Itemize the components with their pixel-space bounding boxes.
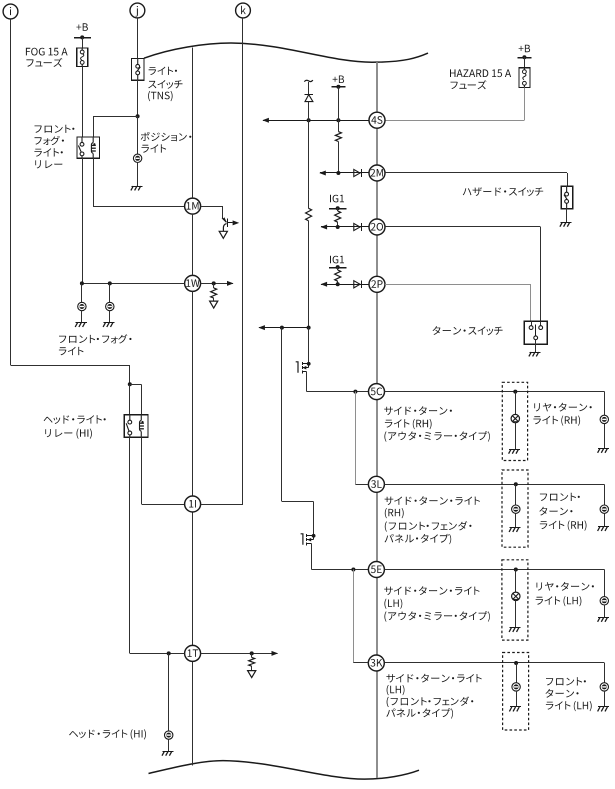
node 5E [368,562,384,578]
wire 5C dashed lamp stem [515,392,517,415]
connector joint 1M [222,217,239,231]
lamp front turn RH [600,505,608,513]
wire junction to position lamp [137,116,139,154]
node junction fog lamp 2 [108,281,112,285]
node junction 3L dashed [514,482,518,486]
node junction Q1 drain [307,362,311,366]
label IG1 second [330,256,344,264]
wire fog relay coil to 1M [93,158,184,206]
label rear turn LH [536,582,594,606]
node 4S [369,112,385,128]
switch light switch TNS [132,59,145,81]
fuse HAZARD 15 A [519,68,530,88]
wire 3K dashed gnd stem [516,691,518,707]
wire +B to hazard fuse [524,57,526,68]
label side turn LH outer mirror [384,586,490,622]
wire fog relay switch down [82,158,84,283]
wire fog lamp1 gnd stem [81,311,83,323]
wire +B mid to 4S row [338,87,340,120]
wire trunk column [192,48,194,766]
label position light [141,132,192,153]
ground front turn LH [598,707,610,712]
power IG1 bar first [329,206,347,210]
label rear turn RH [533,403,591,426]
label turn switch [433,326,503,335]
wire bottom break wave [149,761,420,780]
lamp side turn LH fender [512,683,520,691]
box dashed front turn RH [502,470,528,547]
lamp rear turn LH mirror type [512,592,520,600]
ground front turn RH [598,527,610,532]
wire 5E dashed gnd stem [515,601,517,628]
lamp front turn LH [600,683,608,691]
ground rear turn RH [598,448,610,452]
fuse FOG 15 A [77,48,88,66]
switch hazard [561,186,573,208]
resistor R3 [335,208,341,227]
node junction R2 2M [336,171,340,175]
wire diode column mid [308,120,310,208]
lamp rear turn RH mirror type [511,414,519,422]
connector i [3,4,18,19]
ground side turn LH fender [509,707,521,712]
wire hazard feed column [282,328,314,536]
label side turn LH fender [386,674,481,719]
node junction diode column feed [307,326,311,330]
node junction R4 2P [336,282,340,286]
wire relay switch drop [129,384,131,415]
ground rear turn LH mirror type [509,628,521,632]
triangle 1T [248,671,256,678]
ground front fog 2 [103,323,115,328]
resistor R1 column [306,208,312,221]
wire 3L dashed lamp stem [515,484,517,505]
wire headlight relay coil to 1I [141,437,184,504]
wire headlamp gnd stem [168,739,170,751]
relay headlight HI [124,415,148,438]
node 1I [185,496,201,512]
node junction 3K dashed [514,661,518,665]
wire TNS to junction [137,80,139,116]
node junction position light [136,114,140,118]
wire 2P left [321,282,370,287]
lamp rear turn LH [600,597,608,605]
box dashed rear turn RH [502,382,527,460]
label IG1 first [330,195,344,203]
wire stub 5C to 3L [355,392,357,485]
power +B bar fog [74,35,91,39]
wire 1T left [130,653,185,655]
diode D2 [354,169,362,177]
node 1M [185,198,201,214]
resistor 1T [249,653,255,670]
diode D1 up [304,82,313,102]
label +B hazard [519,45,531,53]
node junction 5C dashed [513,390,517,394]
connector k [236,3,251,18]
wire 3K row [353,663,604,683]
label front fog light [59,334,132,355]
wire headlight relay switch down [129,437,131,653]
wire 5C dashed gnd stem [515,423,517,450]
node junction diode column 4S [307,118,311,122]
wire 2O to turn switch [385,227,541,322]
wire 5C right gnd stem [604,424,606,449]
diode D4 [354,280,362,288]
power +B bar mid [331,85,345,89]
lamp rear turn RH [600,415,608,423]
lamp front fog 2 [106,302,114,310]
node junction Q2 drain [312,534,316,538]
wire headlamp stem [168,653,170,731]
node junction headlamp [167,651,171,655]
label front turn RH [539,493,586,531]
wire turn switch to ground [535,344,537,352]
connector j [130,3,145,18]
wire fog lamp1 stem [81,283,83,302]
ground hazard switch [560,222,572,226]
wire 5C right [385,392,605,416]
wire 4S left [262,118,369,123]
switch turn [524,321,547,344]
wire Q2 source to 5E [311,544,368,570]
label front fog light relay [34,125,74,169]
lamp front fog 1 [78,302,86,310]
node junction 3K stub [351,568,355,572]
wire break tail [304,80,313,81]
node 2M [369,165,385,181]
resistor R4 [335,267,341,284]
wire Q1 source to 5C [306,372,368,392]
power +B bar hazard [517,55,531,59]
node 3L [368,476,384,492]
node junction hazard feed [280,326,284,330]
wire k column [242,18,244,504]
label FOG 15 A fuse [26,48,68,67]
label HAZARD fuse [450,69,511,89]
node junction fog lamp 1 [80,281,84,285]
wire 1M right [201,206,223,218]
wire 2O left [321,225,370,230]
triangle joint 1M [219,231,227,238]
wire main bus [376,62,378,778]
label +B mid [333,76,345,84]
relay front fog light [77,137,100,158]
wire 3L dashed gnd stem [515,513,517,527]
node 5C [369,384,385,400]
wire 3L row [355,484,604,505]
resistor R2 [335,132,341,142]
label side turn RH outer mirror [384,406,490,442]
node junction R3 2O [336,225,340,229]
ground position light [131,186,143,190]
node junction 3L stub [353,390,357,394]
wire top break wave [144,43,428,62]
wire position lamp to ground [137,163,139,187]
ground front fog 1 [75,323,87,328]
wire 5E dashed lamp stem [515,570,517,593]
wire 1I to k [201,504,243,506]
lamp headlight HI [165,731,173,739]
node junction +B column 4S [336,118,340,122]
wire fog lamp2 gnd stem [109,311,111,323]
wire fog lamp2 stem [109,283,111,302]
node 1W [185,275,201,291]
node 1T [185,645,201,661]
ground rear turn RH mirror type [509,449,521,453]
wire stub 5E to 3K [353,570,355,664]
wire R2 to 2M row [338,142,340,174]
node 3K [368,655,384,671]
label front turn LH [545,677,591,711]
wire diode column upper [308,102,310,121]
label headlight relay [44,415,106,439]
wire 2M to hazard switch [385,173,568,187]
wire +B mid to resistor [338,120,340,131]
label headlight HI [69,729,146,739]
ground side turn RH fender [509,528,521,532]
lamp side turn RH fender [512,505,520,513]
wire 3K dashed lamp stem [516,663,518,683]
node 2O [369,219,385,235]
box dashed rear turn LH [502,560,528,640]
node 2P [369,276,385,292]
lamp position light [133,154,141,162]
wire hazard fuse to 4S [385,87,525,120]
ground rear turn LH [598,617,610,621]
wire 3K right gnd stem [604,691,606,707]
wire i column [11,19,130,384]
wire hazard switch to ground [566,209,568,223]
wire 1T right [201,651,279,656]
triangle 1W [210,301,218,308]
wire diode column to transistor [308,328,310,364]
transistor Q2 [301,534,314,546]
node junction 1W resistor [212,281,216,285]
wire j to light switch [137,18,139,59]
label light switch [148,67,182,102]
diode D3 [354,223,362,231]
label side turn RH fender [385,496,480,544]
wire 5C feed arrow [258,325,308,330]
transistor Q1 [296,362,309,374]
wire 5E right [384,570,604,597]
node junction 1T resistor [250,651,254,655]
wire FOG fuse to relay [82,67,84,138]
box dashed front turn LH [503,653,529,731]
resistor 1W [211,283,217,301]
wire junction to fog relay coil [93,116,137,137]
power IG1 bar second [329,265,347,269]
ground turn switch [529,352,541,356]
node junction 5E dashed [514,568,518,572]
wire 1W left [82,283,185,285]
label hazard switch [463,187,543,196]
wire diode column lower [308,221,310,328]
ground headlight [162,751,174,755]
wire +B to FOG fuse [82,37,84,48]
node junction headlight relay feed [128,382,132,386]
label +B fog [76,23,88,31]
wire relay coil drop [130,384,142,415]
wire 2M left [319,171,369,176]
wire 1W right [201,281,234,286]
wire 5E right gnd stem [604,605,606,617]
wire 3L right gnd stem [604,513,606,526]
wire 2P to turn switch [385,284,531,321]
